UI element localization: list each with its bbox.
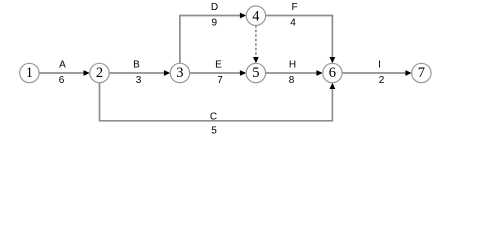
svg-text:5: 5: [211, 126, 217, 137]
svg-text:C: C: [210, 112, 217, 123]
svg-text:A: A: [59, 60, 66, 71]
svg-text:B: B: [133, 60, 140, 71]
wire F 4-6: [266, 16, 333, 62]
svg-text:6: 6: [329, 65, 336, 81]
svg-text:7: 7: [418, 65, 425, 81]
wire dummy 4-5 dashed: [255, 25, 257, 61]
wire I 6-7: [342, 72, 410, 74]
svg-text:2: 2: [96, 65, 103, 81]
node 7: [412, 63, 431, 82]
svg-text:5: 5: [252, 65, 259, 81]
arrowhead into node 2: [84, 70, 90, 76]
svg-text:I: I: [378, 60, 381, 71]
svg-text:F: F: [291, 2, 297, 13]
wire C 2-6: [100, 83, 333, 121]
svg-text:8: 8: [289, 75, 295, 86]
svg-text:H: H: [289, 60, 296, 71]
node 3: [170, 63, 189, 82]
arrowhead into node 6 bottom (C): [330, 83, 336, 89]
arrowhead into node 4 (D): [240, 13, 246, 19]
arrowhead into node 5 (E): [240, 70, 246, 76]
node 1: [20, 63, 39, 82]
arrowhead into node 7: [405, 70, 411, 76]
node 2: [90, 63, 109, 82]
node 6: [323, 63, 342, 82]
wire E 3-5: [190, 72, 245, 74]
svg-text:6: 6: [59, 75, 65, 86]
node 5: [246, 63, 265, 82]
svg-text:4: 4: [290, 18, 296, 29]
svg-text:3: 3: [176, 65, 183, 81]
arrowhead into node 3: [164, 70, 170, 76]
wire B 2-3: [109, 72, 168, 74]
svg-text:7: 7: [217, 75, 223, 86]
svg-text:9: 9: [212, 18, 218, 29]
arrowhead into node 6 (H): [316, 70, 322, 76]
arrowhead into node 6 top (F): [330, 57, 336, 63]
svg-text:2: 2: [379, 75, 385, 86]
svg-text:D: D: [211, 2, 218, 13]
wire A 1-2: [39, 72, 88, 74]
svg-text:3: 3: [136, 75, 142, 86]
svg-text:4: 4: [252, 8, 260, 24]
svg-text:1: 1: [26, 65, 33, 81]
arrowhead into node 5 top (dummy): [253, 57, 259, 63]
wire D 3-4: [180, 16, 245, 64]
svg-text:E: E: [215, 60, 222, 71]
node 4: [246, 6, 265, 25]
wire H 5-6: [266, 72, 321, 74]
